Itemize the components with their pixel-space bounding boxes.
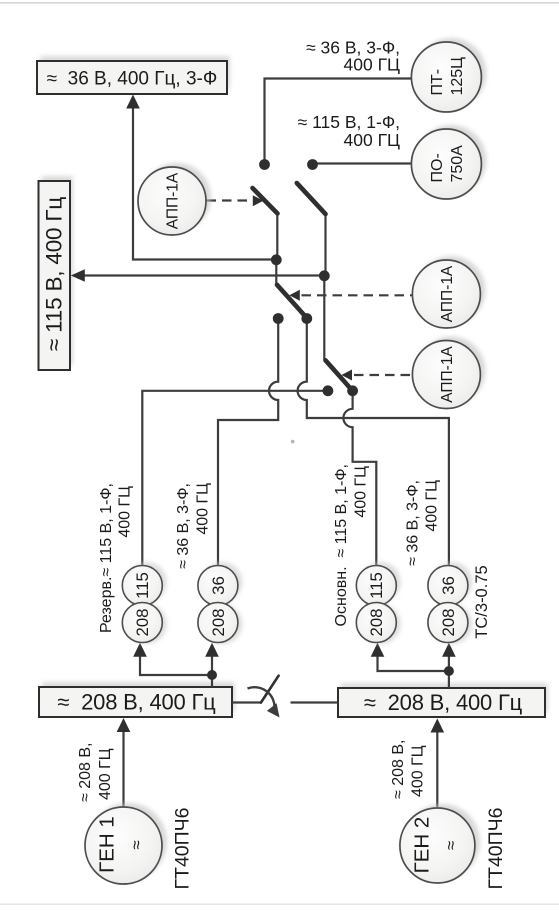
svg-text:≈ 208 В, 400 Гц: ≈ 208 В, 400 Гц: [364, 690, 523, 715]
svg-text:≈ 115 В, 1-Ф,: ≈ 115 В, 1-Ф,: [298, 112, 400, 132]
arrowhead on S3 blade: [289, 290, 300, 301]
svg-text:115: 115: [367, 572, 386, 599]
svg-text:АПП-1А: АПП-1А: [439, 346, 456, 403]
svg-text:208: 208: [133, 609, 152, 637]
wire junction J2 up to T4: [448, 646, 450, 671]
wire 115V feeder: from 115V box arrow right to node D: [84, 274, 324, 276]
generator GEN2 circle: [400, 804, 480, 883]
transformer T3 (main 115V) upper winding circle: [356, 562, 401, 606]
svg-text:400 ГЦ: 400 ГЦ: [195, 483, 212, 535]
svg-text:ТС/3-0.75: ТС/3-0.75: [473, 565, 491, 638]
arrowhead on S1 blade: [253, 195, 263, 206]
transformer T4 (36V right) lower winding circle: [428, 603, 473, 645]
svg-text:750А: 750А: [449, 145, 466, 183]
svg-text:Резерв.≈ 115 В, 1-Ф,: Резерв.≈ 115 В, 1-Ф,: [98, 483, 115, 633]
stray speck: [291, 440, 295, 444]
wire node D down to switch S4 pivot: [323, 276, 325, 361]
contact G1 (to T1): [323, 385, 334, 396]
wire 208V bus1 to T1/T2 with junction: [140, 646, 212, 687]
svg-text:400 ГЦ: 400 ГЦ: [410, 745, 427, 797]
wire transformer T1 up then right to contact G1: [142, 391, 328, 566]
arrowhead into 36V box: [126, 95, 140, 109]
transformer T2 (36V left) upper winding circle: [198, 562, 243, 606]
svg-text:115: 115: [133, 572, 152, 599]
svg-text:400 ГЦ: 400 ГЦ: [117, 486, 134, 538]
svg-text:208: 208: [367, 609, 386, 637]
node F (S3 pivot to T4): [301, 313, 312, 324]
svg-text:ГТ40ПЧ6: ГТ40ПЧ6: [485, 807, 507, 889]
svg-text:400 ГЦ: 400 ГЦ: [97, 748, 114, 800]
contact E (to T2): [273, 313, 284, 324]
arrowhead into T3 208 winding: [371, 643, 385, 657]
switch S4 blade (115V source selector): [326, 360, 353, 390]
svg-text:ПО-: ПО-: [429, 153, 446, 182]
svg-text:400 ГЦ: 400 ГЦ: [353, 466, 370, 518]
contactor APP-1A no.1 circle: [138, 163, 211, 235]
junction J1: [207, 670, 217, 680]
svg-text:≈ 115 В, 400 Гц: ≈ 115 В, 400 Гц: [41, 197, 66, 351]
svg-text:ГТ40ПЧ6: ГТ40ПЧ6: [171, 807, 193, 889]
arrowhead on S4 blade: [342, 370, 353, 381]
switch S3 blade (36V source selector): [277, 285, 307, 318]
svg-text:ГЕН 1: ГЕН 1: [96, 816, 119, 873]
wire switch S1 pivot down to node C: [276, 214, 278, 260]
converter PT-125Ts circle: [411, 38, 486, 112]
svg-text:ПТ-: ПТ-: [429, 69, 446, 96]
arrowhead into 115V box: [71, 269, 85, 282]
generator GEN1 circle: [85, 803, 167, 884]
svg-text:≈: ≈: [442, 841, 461, 850]
svg-text:≈ 208 В, 400 Гц: ≈ 208 В, 400 Гц: [57, 690, 216, 715]
bus tie switch blade: [261, 676, 279, 703]
svg-text:≈ 36 В, 400 Гц, 3-Ф: ≈ 36 В, 400 Гц, 3-Ф: [47, 69, 218, 90]
arrowhead GEN2 into right 208V bus: [431, 719, 445, 733]
page top border line: [0, 2, 559, 4]
wire bus tie left segment: [232, 701, 261, 703]
svg-text:125Ц: 125Ц: [449, 57, 466, 96]
wire switch S2 pivot down to node D: [324, 214, 326, 276]
wire from node A up and right to PT-125Ts: [265, 79, 412, 165]
wire node G2 down (hop) staircase to transformer T3: [343, 391, 376, 566]
transformer T2 (36V left) lower winding circle: [198, 603, 243, 645]
transformer T4 (36V right) upper winding circle: [428, 562, 473, 606]
wire node C down to switch S3 pivot: [275, 260, 277, 285]
arrowhead into T2 208 winding: [205, 643, 219, 657]
node D junction: [319, 270, 330, 281]
svg-text:≈: ≈: [127, 840, 146, 849]
wire contact E down (hop) then left and down to transformer T2: [218, 319, 278, 566]
svg-text:АПП-1А: АПП-1А: [439, 265, 456, 322]
transformer T3 (main 115V) lower winding circle: [356, 603, 401, 645]
bus box "115 V 400 Hz" (vertical): [39, 176, 74, 370]
arrowhead GEN1 into left 208V bus: [117, 718, 131, 732]
wire bus tie right segment: [291, 701, 339, 703]
dashed link APP-1A no.1 to S1: [207, 199, 251, 201]
junction J2: [444, 666, 454, 676]
wire junction J1 up to T2: [211, 646, 213, 675]
wire from node B right to PO-750A: [313, 162, 412, 164]
svg-text:208: 208: [439, 609, 458, 637]
svg-text:208: 208: [209, 609, 228, 637]
wire generator GEN1 to left 208V bus: [122, 721, 124, 807]
svg-text:≈ 208 В,: ≈ 208 В,: [390, 740, 407, 799]
node B (PO contact): [307, 159, 318, 170]
bus box "36 V 400 Hz 3-Ph": [37, 56, 230, 94]
wire 36V feeder: from 36V box arrow down then right to node C: [133, 97, 276, 260]
svg-text:Основн. ≈ 115 В, 1-Ф,: Основн. ≈ 115 В, 1-Ф,: [333, 464, 350, 626]
svg-text:≈ 208 В,: ≈ 208 В,: [77, 743, 94, 802]
dashed link APP-1A no.3 to S4: [354, 374, 412, 376]
svg-text:АПП-1А: АПП-1А: [164, 172, 181, 229]
svg-text:36: 36: [439, 576, 458, 595]
contactor APP-1A no.3 circle: [412, 337, 485, 409]
transformer T1 (reserve 115V) lower winding circle: [122, 603, 167, 645]
svg-text:400 ГЦ: 400 ГЦ: [424, 480, 441, 532]
contactor APP-1A no.2 circle: [412, 256, 485, 328]
node C junction: [271, 254, 282, 265]
svg-text:400 ГЦ: 400 ГЦ: [344, 55, 401, 75]
bus box "208 V 400 Hz" right: [338, 683, 548, 717]
svg-text:≈ 36 В, 3-Ф,: ≈ 36 В, 3-Ф,: [175, 483, 192, 569]
wire generator GEN2 to right 208V bus: [436, 722, 438, 808]
node A (PT contact): [259, 159, 270, 170]
arrowhead into T4 208 winding: [442, 643, 456, 657]
svg-text:400 ГЦ: 400 ГЦ: [344, 130, 401, 150]
dashed link APP-1A no.2 to S3: [302, 294, 413, 296]
bus tie actuation arc: [248, 687, 275, 708]
switch S1 blade (PT reserve feed, open): [253, 188, 278, 214]
converter PO-750A circle: [411, 125, 486, 199]
wire node F down (hop) right to transformer T4: [298, 319, 449, 566]
page bottom border line: [0, 904, 559, 905]
bus tie arc arrowhead: [267, 703, 280, 717]
bus box "208 V 400 Hz" left: [39, 682, 235, 717]
arrowhead into T1 208 winding: [133, 643, 147, 657]
svg-text:≈ 36 В, 3-Ф,: ≈ 36 В, 3-Ф,: [404, 480, 421, 566]
transformer T1 (reserve 115V) upper winding circle: [122, 562, 167, 606]
node G2 (S4 to T3): [347, 385, 358, 396]
svg-text:36: 36: [209, 576, 228, 595]
wire 208V bus2 to T3/T4 with junction: [378, 646, 449, 688]
switch S2 blade (PO reserve feed, open): [297, 183, 326, 214]
svg-text:ГЕН 2: ГЕН 2: [411, 817, 434, 874]
